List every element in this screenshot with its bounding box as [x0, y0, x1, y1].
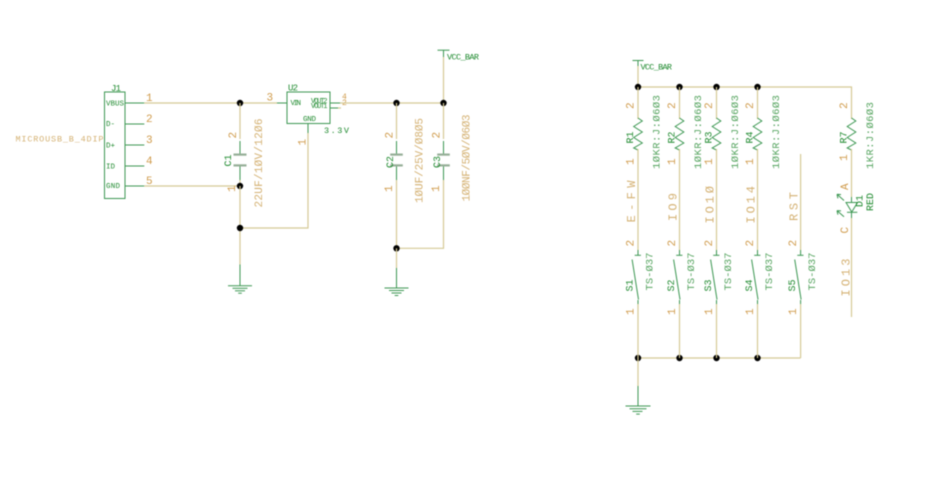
svg-text:22UF/1ØV/12Ø6: 22UF/1ØV/12Ø6: [254, 119, 266, 208]
svg-text:D1: D1: [856, 195, 867, 207]
svg-text:1ØUF/25V/Ø8Ø5: 1ØUF/25V/Ø8Ø5: [414, 118, 426, 203]
ground left 2: [385, 248, 409, 295]
wire C1 junction down: [239, 186, 241, 265]
svg-text:RED: RED: [866, 193, 877, 211]
svg-text:VCC_BAR: VCC_BAR: [447, 53, 479, 63]
node C2 bottom junction: [393, 245, 399, 251]
switch S2: [667, 240, 698, 315]
svg-text:1: 1: [704, 158, 716, 165]
svg-text:1: 1: [384, 185, 396, 192]
node rail R2: [676, 84, 682, 90]
svg-text:1ØKR:J:Ø6Ø3: 1ØKR:J:Ø6Ø3: [771, 95, 783, 169]
svg-text:VBUS: VBUS: [106, 100, 124, 108]
svg-text:1KR:J:Ø6Ø3: 1KR:J:Ø6Ø3: [865, 102, 877, 169]
resistor R4: [745, 87, 783, 169]
svg-text:R2: R2: [668, 131, 679, 143]
svg-text:TS-Ø37: TS-Ø37: [644, 253, 656, 291]
wire S1 to rail: [637, 304, 639, 358]
switch S4: [745, 240, 776, 315]
svg-text:1: 1: [704, 308, 716, 315]
ground left 1: [228, 265, 252, 294]
switch S5: [788, 240, 819, 315]
wire R7 to D1: [851, 149, 853, 197]
svg-text:TS-Ø37: TS-Ø37: [764, 253, 776, 291]
wire R1 to S1: [637, 149, 639, 250]
svg-text:2: 2: [839, 102, 851, 109]
wire GND J1.5 to C1: [144, 185, 240, 187]
node rail S4: [754, 355, 760, 361]
svg-text:R3: R3: [705, 131, 716, 143]
svg-text:1: 1: [626, 308, 638, 315]
svg-text:3: 3: [146, 135, 153, 147]
svg-text:1: 1: [667, 308, 679, 315]
svg-text:2: 2: [432, 132, 444, 139]
svg-text:C1: C1: [224, 154, 235, 166]
resistor R7: [839, 102, 877, 169]
svg-text:1: 1: [745, 158, 757, 165]
svg-text:VCC_BAR: VCC_BAR: [641, 63, 673, 73]
node VBUS junction: [237, 100, 243, 106]
svg-text:2: 2: [228, 132, 240, 139]
svg-text:2: 2: [745, 240, 757, 247]
svg-text:J1: J1: [111, 84, 121, 94]
wire R3 to S3: [716, 149, 718, 250]
svg-text:ID: ID: [106, 163, 116, 171]
node rail R3: [713, 84, 719, 90]
wire S2 to rail: [679, 304, 681, 358]
svg-text:1: 1: [788, 308, 800, 315]
node rail S1: [635, 355, 641, 361]
node rail S2: [676, 355, 682, 361]
svg-text:TS-Ø37: TS-Ø37: [807, 253, 819, 291]
svg-text:2: 2: [385, 132, 397, 139]
wire top rail: [638, 87, 852, 117]
node rail R4: [754, 84, 760, 90]
svg-text:D-: D-: [106, 121, 115, 129]
node rail R1: [635, 84, 641, 90]
svg-text:2: 2: [667, 240, 679, 247]
wire R2 to S2: [679, 149, 681, 250]
capacitor C2: [384, 103, 426, 248]
svg-text:1ØKR:J:Ø6Ø3: 1ØKR:J:Ø6Ø3: [652, 95, 664, 169]
svg-text:3.3V: 3.3V: [324, 126, 350, 136]
node rail S3: [713, 355, 719, 361]
svg-text:S1: S1: [626, 279, 637, 291]
svg-text:2: 2: [626, 102, 638, 109]
svg-text:VIN: VIN: [291, 100, 302, 108]
svg-text:R4: R4: [746, 131, 757, 143]
ground right: [626, 358, 651, 414]
svg-text:S3: S3: [704, 279, 715, 291]
svg-text:IO9: IO9: [667, 193, 681, 221]
svg-text:S2: S2: [667, 279, 678, 291]
wire bottom rail: [638, 357, 801, 359]
svg-text:A: A: [840, 183, 852, 190]
svg-text:2: 2: [667, 102, 679, 109]
svg-text:VOUT1: VOUT1: [311, 103, 328, 111]
resistor R2: [667, 87, 705, 169]
svg-text:2: 2: [146, 114, 153, 126]
svg-text:S4: S4: [745, 279, 756, 291]
capacitor C1: [224, 103, 266, 208]
resistor R1: [626, 87, 664, 169]
wire VBUS J1.1 to U2.VIN: [144, 102, 277, 104]
svg-text:D+: D+: [106, 142, 116, 150]
wire R4 to S4: [757, 149, 759, 250]
switch S3: [704, 240, 735, 315]
svg-text:C: C: [840, 227, 852, 234]
resistor R3: [704, 87, 742, 169]
wire S4 to rail: [757, 304, 759, 358]
node C3 top: [440, 100, 446, 106]
svg-text:RST: RST: [788, 192, 802, 221]
regulator U2: [267, 84, 350, 146]
svg-text:C3: C3: [433, 156, 444, 168]
svg-text:U2: U2: [288, 84, 298, 94]
svg-text:TS-Ø37: TS-Ø37: [686, 253, 698, 291]
svg-text:S5: S5: [788, 279, 799, 291]
power VCC_BAR left: [438, 50, 480, 103]
svg-text:1: 1: [431, 185, 443, 192]
svg-text:2: 2: [788, 240, 800, 247]
node GND junction: [237, 225, 243, 231]
svg-text:1: 1: [745, 308, 757, 315]
svg-text:R1: R1: [626, 131, 637, 143]
wire U2 GND down and left: [240, 133, 308, 228]
svg-text:2: 2: [745, 102, 757, 109]
connector J1: [105, 84, 154, 199]
svg-text:2: 2: [704, 240, 716, 247]
svg-text:2: 2: [626, 240, 638, 247]
node C1 bottom junction: [237, 183, 243, 189]
svg-text:C2: C2: [386, 156, 397, 168]
svg-text:GND: GND: [303, 116, 316, 124]
svg-text:GND: GND: [106, 183, 120, 191]
LED D1: [837, 193, 877, 218]
node C2 top: [393, 100, 399, 106]
svg-text:1ØKR:J:Ø6Ø3: 1ØKR:J:Ø6Ø3: [730, 95, 742, 169]
svg-text:3: 3: [267, 93, 274, 105]
capacitor C3: [397, 103, 474, 248]
switch S1: [626, 240, 657, 315]
svg-text:1: 1: [626, 158, 638, 165]
svg-text:4: 4: [146, 156, 153, 168]
svg-text:2: 2: [704, 102, 716, 109]
wire S5 to rail: [800, 304, 802, 358]
svg-text:1: 1: [667, 158, 679, 165]
power VCC_BAR right: [633, 61, 673, 88]
svg-text:1: 1: [839, 154, 851, 161]
svg-text:TS-Ø37: TS-Ø37: [723, 253, 735, 291]
wire D1 to IO13: [851, 218, 853, 317]
svg-text:1ØØNF/5ØV/Ø6Ø3: 1ØØNF/5ØV/Ø6Ø3: [461, 115, 473, 202]
svg-text:MICROUSB_B_4DIP: MICROUSB_B_4DIP: [16, 134, 104, 144]
wire RST stub: [800, 154, 802, 250]
wire U2 output to VCC_BAR: [340, 102, 444, 104]
wire S3 to rail: [716, 304, 718, 358]
svg-text:R7: R7: [840, 131, 851, 143]
